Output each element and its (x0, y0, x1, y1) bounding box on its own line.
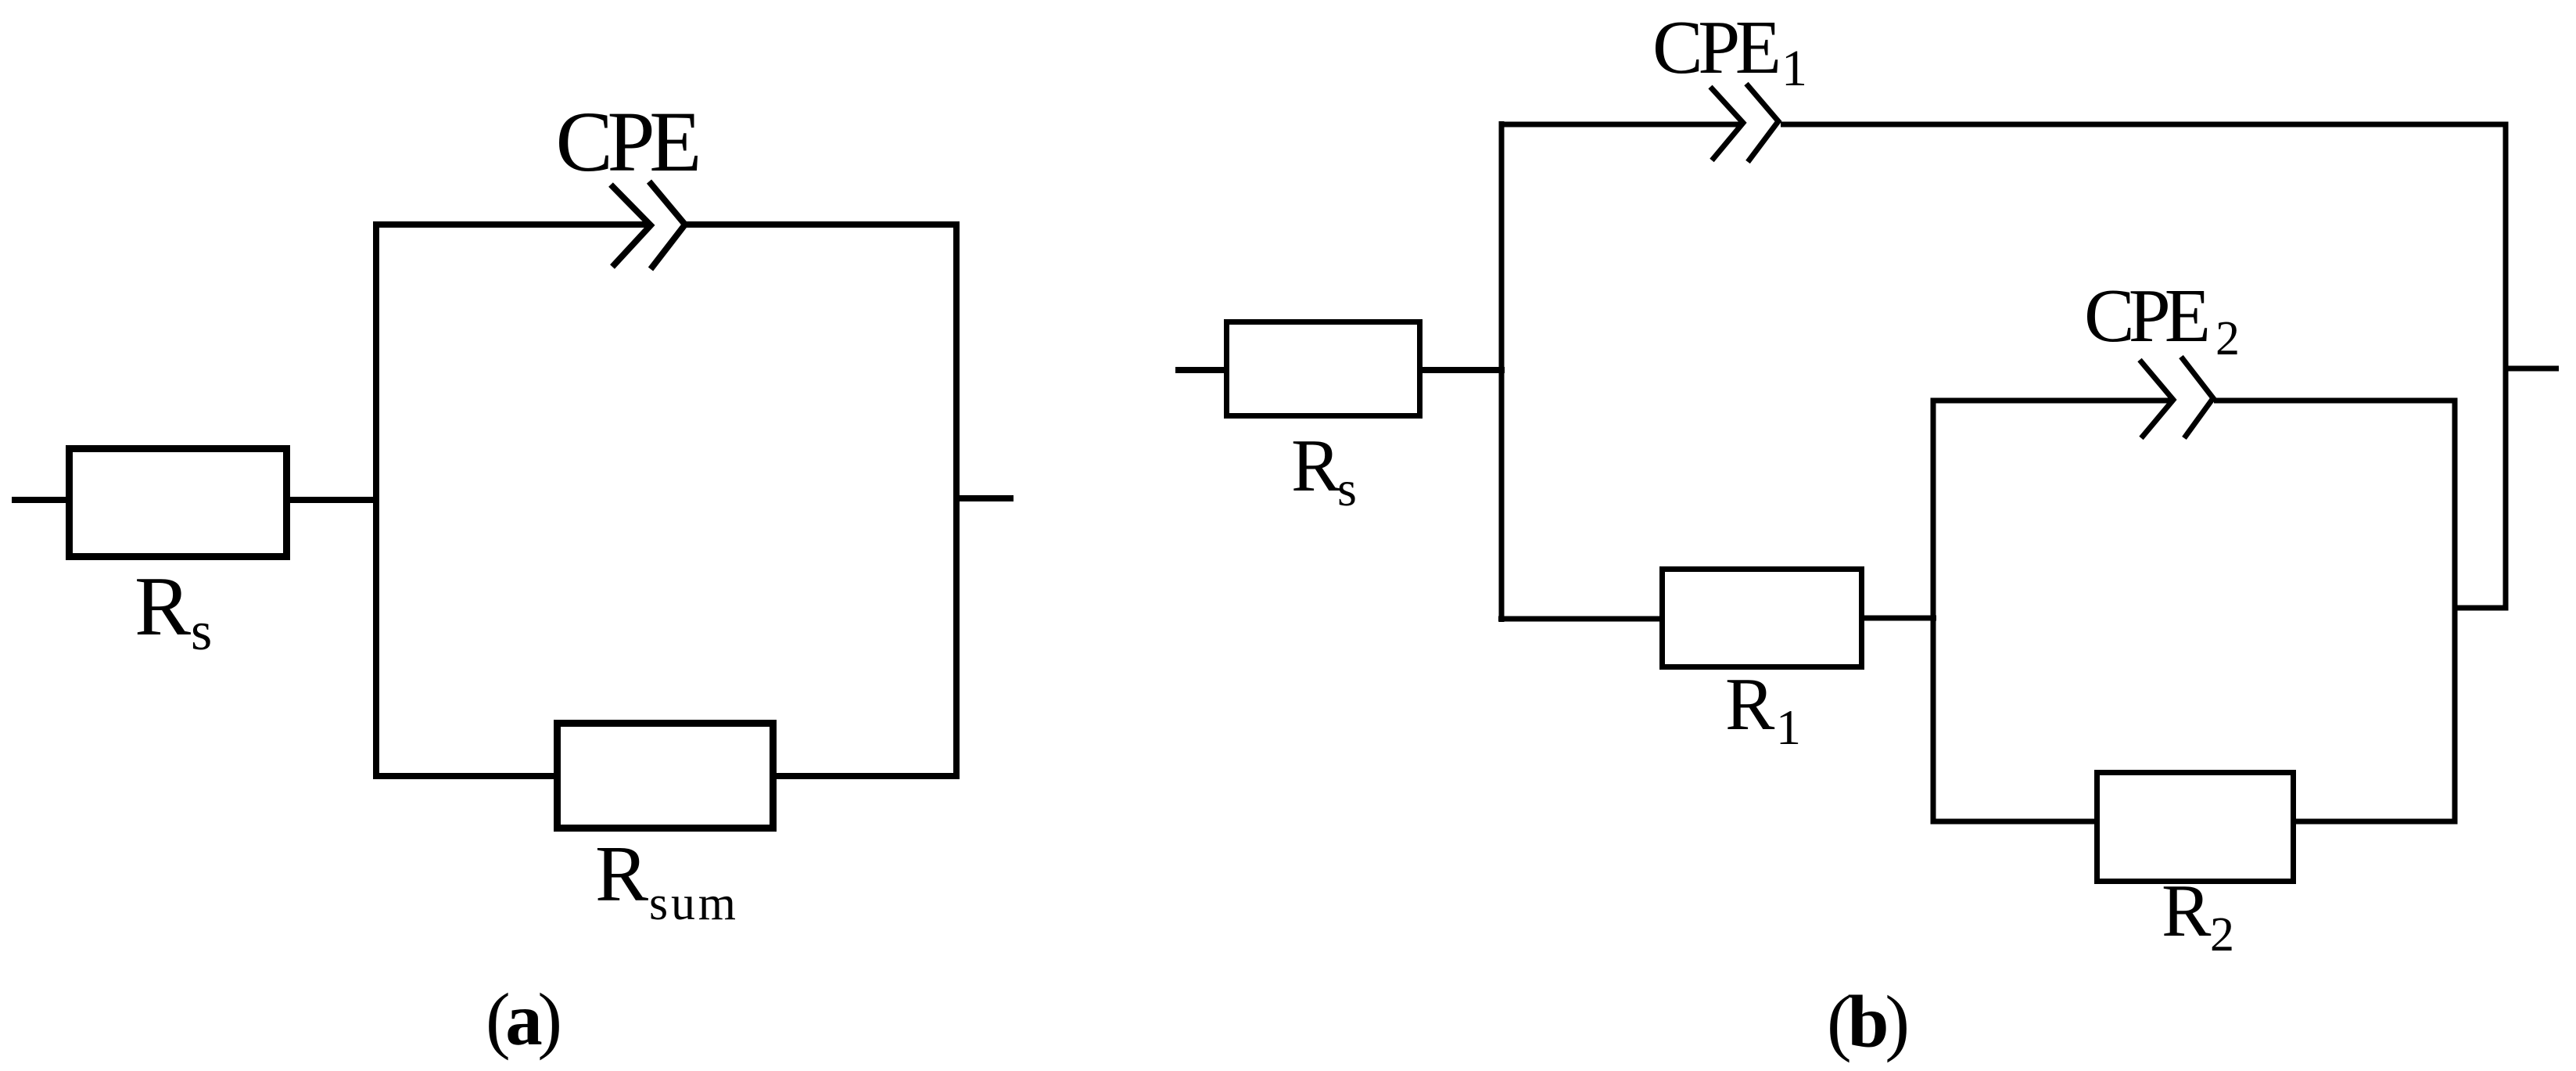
wire right vertical (a) (953, 221, 960, 779)
wire Rs to node (b) (1419, 367, 1505, 373)
svg-text:(b): (b) (1827, 980, 1910, 1063)
wire left lead (a) (12, 497, 72, 503)
wire R1 to inner node (b) (1861, 616, 1936, 621)
wire bottom segment (a) (373, 773, 960, 779)
svg-text:sum: sum (649, 877, 736, 930)
wire bottom branch left segment (b) (1498, 616, 1663, 622)
svg-text:R: R (1725, 663, 1775, 746)
wire inner left vertical (b) (1931, 398, 1936, 825)
svg-text:1: 1 (1776, 699, 1801, 755)
svg-text:R: R (2162, 869, 2212, 952)
svg-text:1: 1 (1781, 40, 1807, 97)
wire left vertical (a) (373, 221, 379, 779)
wire connector inner to outer right (b) (2455, 606, 2508, 611)
CPE2 element chevron 2 (b) (2181, 357, 2213, 438)
wire inner bottom segment (b) (1931, 819, 2458, 825)
wire outer left vertical (b) (1499, 121, 1505, 622)
wire inner top left segment (b) (1931, 398, 2175, 404)
resistor Rs (b) (1227, 322, 1420, 416)
wire inner right vertical (b) (2452, 398, 2458, 825)
svg-text:s: s (1337, 461, 1357, 516)
wire inner top right segment (b) (2214, 398, 2458, 404)
resistor R2 (b) (2097, 773, 2294, 882)
svg-text:CPE: CPE (2084, 274, 2211, 358)
resistor Rs (a) (70, 449, 287, 557)
svg-text:R: R (1291, 424, 1341, 507)
wire left lead (b) (1175, 367, 1228, 373)
wire top left segment (a) (373, 221, 650, 228)
svg-text:R: R (595, 830, 648, 918)
resistor Rsum (a) (558, 724, 773, 828)
svg-text:CPE: CPE (556, 94, 702, 189)
wire output stub (b) (2506, 366, 2559, 372)
svg-text:(a): (a) (486, 978, 562, 1061)
CPE1 element chevron 2 (b) (1746, 84, 1778, 162)
svg-text:R: R (135, 560, 191, 653)
resistor R1 (b) (1663, 570, 1862, 667)
svg-text:2: 2 (2215, 312, 2240, 365)
wire Rs to node (a) (287, 497, 379, 503)
CPE2 element chevron 1 (b) (2140, 360, 2173, 438)
CPE1 element chevron 1 (b) (1710, 87, 1743, 160)
wire output stub (a) (956, 495, 1014, 501)
svg-text:CPE: CPE (1652, 5, 1781, 89)
CPE element chevron 2 (a) (649, 181, 685, 269)
wire outer top right segment (b) (1781, 122, 2509, 128)
svg-text:2: 2 (2210, 908, 2234, 961)
wire outer top left segment (b) (1499, 122, 1742, 128)
CPE element chevron 1 (a) (611, 185, 651, 267)
svg-text:s: s (191, 602, 212, 662)
wire outer right vertical (b) (2503, 122, 2509, 611)
wire top right segment (a) (685, 221, 960, 228)
